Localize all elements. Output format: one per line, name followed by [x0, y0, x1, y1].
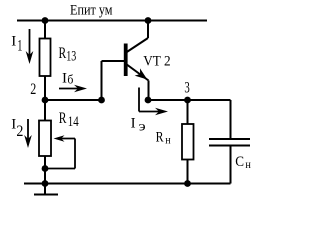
svg-text:I: I	[131, 116, 136, 132]
svg-text:VT 2: VT 2	[143, 54, 170, 70]
svg-text:I: I	[62, 71, 67, 87]
svg-text:C: C	[235, 154, 244, 170]
svg-text:14: 14	[68, 114, 79, 130]
svg-text:Епит ум: Епит ум	[70, 3, 113, 19]
svg-text:1: 1	[17, 38, 22, 55]
svg-text:2: 2	[30, 81, 36, 98]
svg-text:3: 3	[184, 80, 189, 97]
svg-text:I: I	[11, 34, 16, 50]
svg-text:R: R	[59, 45, 67, 62]
svg-text:б: б	[67, 72, 73, 87]
svg-text:э: э	[139, 120, 146, 135]
svg-text:R: R	[156, 130, 164, 146]
svg-text:R: R	[59, 110, 67, 127]
svg-text:2: 2	[16, 123, 23, 140]
svg-text:н: н	[245, 157, 251, 171]
svg-text:н: н	[165, 133, 171, 147]
svg-text:13: 13	[66, 49, 76, 65]
